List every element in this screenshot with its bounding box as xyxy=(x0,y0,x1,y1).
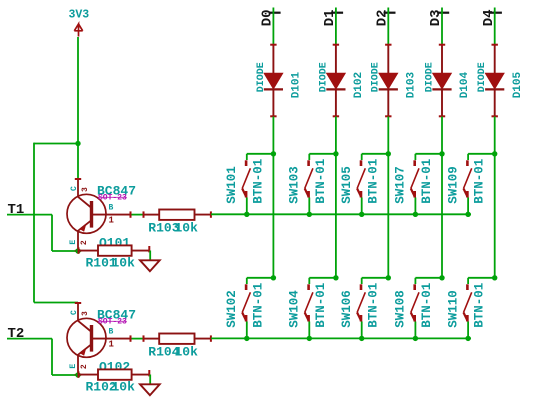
svg-text:SW102: SW102 xyxy=(225,290,239,328)
switch SW110 BTN-01 xyxy=(446,278,494,341)
wire column D3 middle xyxy=(441,117,443,278)
svg-text:D101: D101 xyxy=(291,71,303,98)
resistor R102 right pin xyxy=(132,374,150,376)
junction column D4 row1 tap xyxy=(492,151,497,156)
transistor Q101 BC847 xyxy=(67,179,131,251)
wire R102 to ground xyxy=(149,375,151,385)
svg-text:2: 2 xyxy=(80,364,89,369)
resistor R103 left pin xyxy=(144,214,160,216)
resistor R104 body xyxy=(159,334,194,344)
svg-text:BTN-01: BTN-01 xyxy=(420,283,434,328)
svg-text:BTN-01: BTN-01 xyxy=(420,159,434,204)
ground symbol (R102) xyxy=(140,384,160,395)
svg-text:D102: D102 xyxy=(353,72,365,98)
resistor R101 body xyxy=(98,245,132,255)
resistor R102 left pin xyxy=(78,374,98,376)
resistor R101 right pin xyxy=(132,250,150,252)
wire column D4 top xyxy=(494,8,496,45)
switch SW106 BTN-01 xyxy=(340,278,388,341)
switch SW102 BTN-01 xyxy=(225,278,273,341)
svg-text:SW108: SW108 xyxy=(394,290,408,328)
transistor Q102 BC847 xyxy=(67,303,131,375)
junction 3V3 node xyxy=(75,141,80,146)
svg-text:DIODE: DIODE xyxy=(318,62,329,92)
resistor R103 body xyxy=(159,210,194,220)
svg-text:SW106: SW106 xyxy=(340,290,354,328)
svg-text:10k: 10k xyxy=(175,220,199,235)
wire 3V3 feed to Q102 collector xyxy=(34,302,78,304)
node D4 net label xyxy=(481,9,502,26)
svg-text:SW110: SW110 xyxy=(446,290,460,328)
svg-text:BTN-01: BTN-01 xyxy=(473,283,487,328)
switch SW105 BTN-01 xyxy=(340,154,388,217)
svg-text:10k: 10k xyxy=(112,379,136,394)
switch SW108 BTN-01 xyxy=(394,278,442,341)
switch SW107 BTN-01 xyxy=(394,154,442,217)
svg-text:E: E xyxy=(69,240,78,245)
svg-text:BTN-01: BTN-01 xyxy=(473,159,487,204)
svg-text:3: 3 xyxy=(81,311,90,316)
wire 3V3 junction down to Q101 collector xyxy=(77,144,79,180)
junction Q101 emitter / T1 / R101 xyxy=(75,248,80,253)
wire 3V3 vertical from power flag to junction xyxy=(77,37,79,144)
junction column D1 row1 tap xyxy=(333,151,338,156)
wire column D0 middle xyxy=(272,117,274,278)
svg-text:SOT-23: SOT-23 xyxy=(98,193,127,202)
wire Q101 base to R103 xyxy=(132,214,144,216)
svg-text:BTN-01: BTN-01 xyxy=(314,283,328,328)
wire R101 to ground xyxy=(149,251,151,261)
diode D101 xyxy=(256,45,303,117)
svg-text:BTN-01: BTN-01 xyxy=(251,159,265,204)
svg-text:BTN-01: BTN-01 xyxy=(366,283,380,328)
svg-text:1: 1 xyxy=(109,340,115,350)
diode D104 xyxy=(424,45,471,117)
svg-text:DIODE: DIODE xyxy=(256,62,267,92)
node D1 net label xyxy=(322,9,343,26)
wire column D4 middle xyxy=(494,117,496,278)
svg-text:SW109: SW109 xyxy=(446,166,460,204)
junction column D2 row1 tap xyxy=(386,151,391,156)
svg-text:10k: 10k xyxy=(175,344,199,359)
svg-text:BTN-01: BTN-01 xyxy=(251,283,265,328)
svg-text:3: 3 xyxy=(81,187,90,192)
svg-text:C: C xyxy=(70,186,79,191)
svg-text:D103: D103 xyxy=(406,71,418,98)
svg-text:D105: D105 xyxy=(512,71,524,98)
svg-text:3V3: 3V3 xyxy=(69,9,90,22)
svg-text:B: B xyxy=(109,328,114,337)
svg-text:BTN-01: BTN-01 xyxy=(314,159,328,204)
svg-text:DIODE: DIODE xyxy=(424,62,435,92)
switch SW104 BTN-01 xyxy=(288,278,336,341)
diode D103 xyxy=(371,45,418,117)
svg-text:BTN-01: BTN-01 xyxy=(366,159,380,204)
junction column D0 row1 tap xyxy=(271,151,276,156)
junction column D3 row1 tap xyxy=(439,151,444,156)
wire T1 label to corner xyxy=(7,214,52,216)
junction column D0 row2 tap xyxy=(271,275,276,280)
wire T1 vertical drop xyxy=(51,215,53,251)
wire column D3 top xyxy=(441,8,443,45)
node D0 net label xyxy=(260,9,281,26)
svg-text:E: E xyxy=(69,364,78,369)
svg-text:C: C xyxy=(70,310,79,315)
junction column D3 row2 tap xyxy=(439,275,444,280)
wire column D2 top xyxy=(387,8,389,45)
junction Q102 emitter / T2 / R102 xyxy=(75,372,80,377)
svg-text:10k: 10k xyxy=(112,255,136,270)
resistor R101 left pin xyxy=(78,250,98,252)
junction column D4 row2 tap xyxy=(492,275,497,280)
svg-text:SW105: SW105 xyxy=(340,166,354,204)
wire T2 to Q102 emitter xyxy=(52,374,78,376)
svg-text:SW101: SW101 xyxy=(225,166,239,204)
svg-text:D104: D104 xyxy=(459,71,471,98)
wire 3V3 horizontal to left rail xyxy=(34,143,78,145)
svg-text:DIODE: DIODE xyxy=(477,62,488,92)
wire column D1 top xyxy=(335,8,337,45)
svg-text:T1: T1 xyxy=(8,202,25,218)
junction column D2 row2 tap xyxy=(386,275,391,280)
wire T2 label to corner xyxy=(7,338,52,340)
wire column D2 middle xyxy=(387,117,389,278)
power flag 3V3, net 3V3 xyxy=(69,9,90,37)
wire column D0 top xyxy=(272,8,274,45)
junction column D1 row2 tap xyxy=(333,275,338,280)
switch SW109 BTN-01 xyxy=(446,154,494,217)
wire T1 to Q101 emitter xyxy=(52,250,78,252)
svg-text:B: B xyxy=(109,204,114,213)
wire 3V3 left rail vertical down to Q102 feed xyxy=(33,143,35,303)
resistor R102 body xyxy=(98,369,132,379)
resistor R104 left pin xyxy=(144,338,160,340)
resistor R103 right pin xyxy=(195,214,211,216)
switch SW101 BTN-01 xyxy=(225,154,273,217)
diode D105 xyxy=(477,45,524,117)
wire column D1 middle xyxy=(335,117,337,278)
wire Q102 base to R104 xyxy=(132,338,144,340)
ground symbol (R101) xyxy=(140,260,160,271)
diode D102 xyxy=(318,45,365,117)
svg-text:SW107: SW107 xyxy=(394,166,408,204)
svg-text:1: 1 xyxy=(109,216,115,226)
wire row T2 (R104 to switches) xyxy=(211,337,471,339)
svg-text:SW104: SW104 xyxy=(288,290,302,328)
wire T2 vertical drop xyxy=(51,339,53,375)
svg-text:2: 2 xyxy=(80,240,89,245)
node D2 net label xyxy=(375,9,396,26)
resistor R104 right pin xyxy=(195,338,211,340)
switch SW103 BTN-01 xyxy=(288,154,336,217)
node D3 net label xyxy=(428,9,449,26)
svg-text:T2: T2 xyxy=(8,326,25,342)
svg-text:DIODE: DIODE xyxy=(371,62,382,92)
wire row T1 (R103 to switches) xyxy=(211,213,471,215)
svg-text:SW103: SW103 xyxy=(288,166,302,204)
svg-text:SOT-23: SOT-23 xyxy=(98,317,127,326)
